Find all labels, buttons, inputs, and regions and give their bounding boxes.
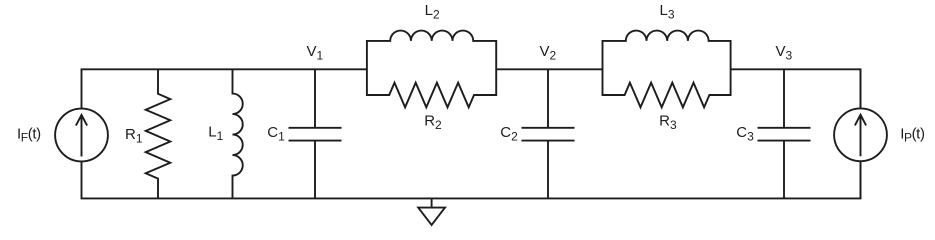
capacitor C1 bbox=[289, 69, 342, 198]
capacitor C2 bbox=[522, 69, 575, 198]
svg-text:IP(t): IP(t) bbox=[900, 126, 925, 145]
svg-text:R3: R3 bbox=[659, 112, 677, 132]
wire bottom rail bbox=[82, 161, 861, 198]
wire right branch lower bbox=[860, 161, 862, 198]
svg-text:V2: V2 bbox=[540, 43, 557, 63]
current source IF circle bbox=[55, 109, 108, 162]
svg-text:IF(t): IF(t) bbox=[17, 126, 41, 145]
resistor R1 bbox=[146, 69, 171, 198]
capacitor C3 bbox=[758, 69, 811, 198]
svg-text:V1: V1 bbox=[307, 43, 324, 63]
wire top rail middle segment bbox=[496, 68, 602, 70]
svg-text:C1: C1 bbox=[267, 124, 285, 144]
svg-text:L1: L1 bbox=[208, 124, 223, 144]
resistor R3 bbox=[602, 83, 732, 108]
svg-text:R1: R1 bbox=[125, 126, 143, 146]
wire top rail left segment bbox=[82, 69, 367, 108]
svg-text:R2: R2 bbox=[424, 112, 442, 132]
current source IF arrow bbox=[76, 115, 87, 157]
current source IP circle bbox=[834, 108, 887, 161]
svg-text:C2: C2 bbox=[500, 124, 518, 144]
svg-text:L2: L2 bbox=[425, 2, 440, 22]
wire top rail right segment bbox=[731, 69, 861, 108]
inductor L2 with block edges bbox=[367, 31, 496, 95]
svg-text:L3: L3 bbox=[660, 2, 675, 22]
inductor L1 bbox=[233, 69, 243, 198]
wire right branch upper bbox=[860, 69, 862, 108]
current source IP arrow bbox=[855, 115, 866, 157]
resistor R2 bbox=[366, 83, 497, 108]
ground bbox=[418, 198, 445, 225]
svg-text:V3: V3 bbox=[776, 43, 793, 63]
svg-text:C3: C3 bbox=[736, 124, 754, 144]
inductor L3 with block edges bbox=[603, 31, 731, 95]
